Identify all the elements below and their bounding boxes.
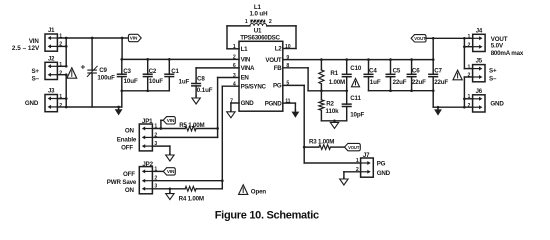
svg-text:5.0V: 5.0V <box>491 42 504 49</box>
svg-text:S–: S– <box>489 75 497 82</box>
svg-text:22uF: 22uF <box>412 79 426 86</box>
svg-text:VIN: VIN <box>167 118 175 123</box>
svg-text:GND: GND <box>377 170 391 177</box>
svg-text:S–: S– <box>32 76 40 83</box>
svg-text:VINA: VINA <box>241 65 255 72</box>
svg-text:1uF: 1uF <box>370 79 381 86</box>
svg-text:R1: R1 <box>330 70 338 77</box>
svg-text:C2: C2 <box>149 68 157 75</box>
svg-text:EN: EN <box>241 75 250 82</box>
svg-text:R4 1.00M: R4 1.00M <box>179 195 204 202</box>
svg-text:Figure 10. Schematic: Figure 10. Schematic <box>215 209 319 221</box>
svg-text:OFF: OFF <box>123 171 135 178</box>
svg-text:2: 2 <box>269 19 272 25</box>
svg-text:VOUT: VOUT <box>348 145 360 150</box>
svg-text:2: 2 <box>59 103 62 109</box>
svg-text:C11: C11 <box>350 95 361 102</box>
svg-text:2: 2 <box>467 42 470 48</box>
svg-text:J5: J5 <box>476 59 483 65</box>
svg-text:1.0 uH: 1.0 uH <box>250 10 269 17</box>
svg-text:6: 6 <box>233 63 236 69</box>
svg-text:J4: J4 <box>476 28 483 34</box>
svg-text:VOUT: VOUT <box>414 36 426 41</box>
svg-text:R5 1.00M: R5 1.00M <box>179 122 204 129</box>
svg-text:VOUT: VOUT <box>265 57 282 64</box>
svg-text:VIN: VIN <box>130 36 138 41</box>
svg-text:0.1uF: 0.1uF <box>197 87 213 94</box>
svg-text:J2: J2 <box>48 56 55 62</box>
svg-text:C6: C6 <box>412 68 420 75</box>
svg-text:110k: 110k <box>326 108 340 115</box>
svg-text:PG: PG <box>273 83 282 90</box>
svg-text:VIN: VIN <box>167 169 175 174</box>
svg-text:R2: R2 <box>326 101 334 108</box>
svg-text:1: 1 <box>233 44 236 50</box>
svg-text:PS/SYNC: PS/SYNC <box>241 83 267 90</box>
svg-text:10uF: 10uF <box>124 78 138 85</box>
svg-text:1: 1 <box>245 19 248 25</box>
svg-text:TPS63060DSC: TPS63060DSC <box>240 35 280 42</box>
svg-text:22uF: 22uF <box>434 79 448 86</box>
svg-text:U1: U1 <box>254 28 262 35</box>
svg-text:J1: J1 <box>48 28 55 34</box>
svg-text:J6: J6 <box>476 89 483 95</box>
svg-text:1: 1 <box>467 64 470 70</box>
svg-text:22uF: 22uF <box>393 79 407 86</box>
svg-text:C1: C1 <box>171 68 179 75</box>
svg-text:1: 1 <box>467 34 470 40</box>
svg-text:2: 2 <box>59 71 62 77</box>
svg-text:S+: S+ <box>31 68 39 75</box>
svg-text:C7: C7 <box>434 68 442 75</box>
svg-text:1: 1 <box>356 158 359 164</box>
svg-text:C4: C4 <box>369 68 377 75</box>
svg-text:S+: S+ <box>489 68 497 75</box>
svg-text:Open: Open <box>251 188 267 195</box>
svg-text:C9: C9 <box>99 67 107 74</box>
svg-text:PWR Save: PWR Save <box>107 179 137 186</box>
svg-text:ON: ON <box>125 128 135 135</box>
svg-text:100uF: 100uF <box>97 74 115 81</box>
svg-text:1uF: 1uF <box>179 78 190 85</box>
svg-text:OFF: OFF <box>121 145 133 152</box>
svg-text:10uF: 10uF <box>149 78 163 85</box>
svg-text:GND: GND <box>490 100 504 107</box>
svg-text:C8: C8 <box>197 76 205 83</box>
svg-text:Enable: Enable <box>117 136 137 143</box>
svg-text:ON: ON <box>125 187 135 194</box>
svg-text:1: 1 <box>467 94 470 100</box>
svg-text:L1: L1 <box>241 46 248 53</box>
svg-text:J3: J3 <box>48 89 55 95</box>
svg-text:GND: GND <box>241 100 255 107</box>
svg-text:L2: L2 <box>275 46 282 53</box>
svg-text:GND: GND <box>25 100 39 107</box>
svg-text:2: 2 <box>467 103 470 109</box>
svg-text:2: 2 <box>467 73 470 79</box>
svg-text:2: 2 <box>233 55 236 61</box>
svg-text:FB: FB <box>274 65 282 72</box>
svg-text:800mA max: 800mA max <box>491 50 524 57</box>
svg-text:PGND: PGND <box>265 100 283 107</box>
svg-text:C5: C5 <box>393 68 401 75</box>
svg-text:VIN: VIN <box>29 38 40 45</box>
svg-text:10pF: 10pF <box>350 111 364 118</box>
svg-text:PG: PG <box>377 161 386 168</box>
svg-text:2.5 – 12V: 2.5 – 12V <box>12 45 40 52</box>
svg-text:R3 1.00M: R3 1.00M <box>309 139 334 146</box>
svg-text:C10: C10 <box>350 65 362 72</box>
svg-text:C3: C3 <box>123 68 131 75</box>
svg-text:VIN: VIN <box>241 57 251 64</box>
svg-text:1.00M: 1.00M <box>329 79 345 86</box>
